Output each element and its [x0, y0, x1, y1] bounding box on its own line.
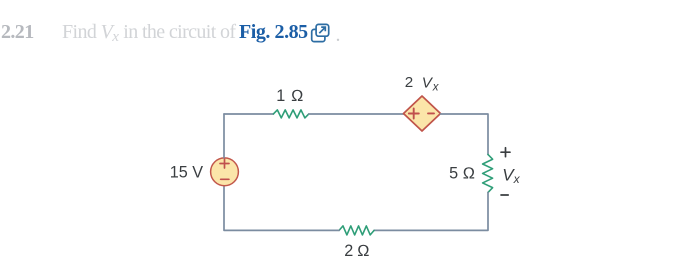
link Fig. 2.85 — [239, 20, 308, 44]
wire top-right segment (dependent source to node B) — [441, 114, 489, 155]
polarity plus for Vx — [501, 148, 510, 157]
svg-text:1 Ω: 1 Ω — [276, 87, 303, 105]
dependent source 2Vx (diamond) — [404, 96, 441, 131]
polarity minus inside dependent source — [428, 112, 434, 114]
wire top-left segment (node A to 1-ohm resistor) — [224, 113, 273, 115]
voltage source 15V (circle) — [211, 158, 239, 186]
polarity plus inside dependent source — [409, 108, 419, 118]
resistor 2 ohm (zigzag, bottom wire) — [339, 226, 374, 235]
external-link icon — [310, 21, 330, 43]
wire right-lower segment (5-ohm to node C) — [374, 192, 488, 230]
svg-text:15 V: 15 V — [170, 163, 204, 181]
svg-text:5 Ω: 5 Ω — [449, 164, 475, 182]
polarity minus for Vx — [501, 194, 508, 196]
header prompt text — [62, 20, 235, 46]
polarity plus inside 15V source — [220, 159, 229, 168]
svg-text:2 Ω: 2 Ω — [344, 242, 369, 260]
resistor 5 ohm (vertical zigzag, right wire) — [483, 155, 493, 193]
svg-text:2Vx: 2Vx — [405, 74, 440, 93]
header problem number 2.21 — [1, 20, 34, 44]
wire left-upper segment (15V source to node A) — [223, 114, 225, 158]
wire top-middle segment (1-ohm to dependent source) — [309, 113, 404, 115]
polarity minus inside 15V source — [221, 178, 229, 180]
svg-text:Vx: Vx — [502, 165, 520, 186]
wire bottom-left segment (2-ohm to node D) — [224, 186, 339, 230]
resistor 1 ohm (zigzag, top wire) — [273, 110, 308, 118]
